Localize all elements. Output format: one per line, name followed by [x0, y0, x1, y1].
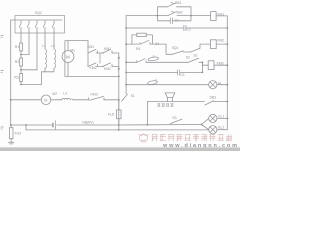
wire bus through FU2 gap — [118, 100, 120, 125]
wire M2 row — [11, 99, 119, 101]
wire EL2 to rail — [217, 129, 227, 131]
contact KM2 right — [103, 63, 113, 67]
svg-text:SQ1: SQ1 — [172, 46, 179, 50]
contact KM1 right — [103, 49, 113, 53]
switch S2a — [191, 48, 200, 52]
svg-text:SB2: SB2 — [176, 10, 183, 14]
switch S3 — [170, 119, 182, 124]
wire S2 up to KM2 row — [199, 44, 201, 48]
svg-text:KM1: KM1 — [104, 47, 111, 51]
svg-text:SB3: SB3 — [210, 95, 217, 99]
pushbutton SB2 — [168, 11, 176, 15]
contact KM2 left — [88, 63, 98, 67]
svg-text:L3: L3 — [63, 91, 67, 95]
wire R2 to R3 — [20, 66, 22, 73]
switch S4 — [140, 40, 150, 44]
wire R4 branch box — [132, 35, 153, 44]
resistor R1 — [20, 43, 23, 51]
wire control rail upper — [125, 16, 127, 94]
buzzer oval row3 — [148, 56, 159, 61]
switch S1 — [122, 94, 128, 101]
left edge marks — [1, 35, 4, 129]
capacitor C1 — [170, 18, 172, 24]
wire left supply rail — [10, 20, 12, 125]
capacitor C2 — [184, 25, 186, 30]
wire pole4 drop — [44, 33, 46, 48]
lamp HL — [209, 81, 217, 89]
svg-text:KM2: KM2 — [104, 67, 111, 71]
svg-text:S1: S1 — [131, 94, 135, 98]
svg-text:L2: L2 — [51, 44, 55, 48]
pushbutton SB1 — [168, 2, 176, 6]
resistor R2 — [20, 58, 23, 66]
coil KM3 — [208, 61, 214, 70]
coil KM2 — [210, 40, 216, 49]
lamp EL1 — [209, 114, 217, 122]
svg-text:C2: C2 — [187, 27, 191, 31]
wire B2 bottom row — [26, 129, 209, 131]
motor M1 circle — [62, 51, 74, 63]
svg-text:KM3: KM3 — [217, 61, 224, 65]
lamp EL2 — [209, 126, 217, 134]
wire SB1 branch — [158, 7, 192, 16]
svg-text:S3: S3 — [172, 116, 176, 120]
switch row3 left — [137, 59, 146, 63]
svg-text:R3: R3 — [14, 76, 18, 80]
wire main right bus — [118, 53, 120, 130]
resistor R3 — [20, 73, 23, 81]
wire control row2 — [126, 27, 227, 29]
watermark publisher logo — [139, 134, 149, 142]
bottom scan band — [0, 146, 240, 149]
wire tap2 — [21, 69, 37, 71]
wire pole5 drop — [53, 33, 55, 48]
svg-text:KM2: KM2 — [90, 66, 97, 70]
svg-text:HL: HL — [218, 82, 222, 86]
svg-text:S2: S2 — [186, 56, 190, 60]
svg-text:S4: S4 — [155, 42, 159, 46]
svg-text:GB(6V): GB(6V) — [82, 120, 93, 124]
wire control row1 — [126, 15, 227, 17]
svg-text:KM1: KM1 — [87, 45, 94, 49]
buzzer oval HL row — [147, 80, 157, 85]
wire R1 to R2 — [20, 51, 22, 58]
inductor L3 — [62, 98, 73, 99]
wire M1 loop — [65, 41, 119, 77]
wire R3 lower stub — [20, 81, 22, 84]
svg-text:L1: L1 — [42, 44, 46, 48]
svg-text:SB1: SB1 — [175, 1, 182, 5]
wire right rail — [226, 16, 228, 130]
wire S3 row — [119, 124, 202, 127]
fuse FU3 — [9, 128, 13, 139]
wire inner bus of SQ2 — [11, 19, 62, 21]
wire B2 drop — [25, 125, 27, 130]
wire C1 branch — [158, 16, 192, 21]
svg-text:S2: S2 — [193, 54, 197, 58]
wire KM2 row — [126, 43, 227, 45]
svg-text:C1: C1 — [175, 19, 179, 23]
speaker row wire — [147, 101, 227, 103]
wire SQ1 jog — [166, 44, 172, 54]
wire lamp node diagonals — [202, 118, 209, 129]
svg-text:EL1: EL1 — [218, 114, 224, 118]
svg-text:FU3: FU3 — [15, 132, 22, 136]
svg-text:KM2: KM2 — [217, 39, 224, 43]
switch SQ1 — [172, 51, 183, 54]
wire row3 jog to KM3 — [202, 62, 227, 65]
wire cluster right links to bus — [96, 53, 119, 67]
wire tap1 — [21, 54, 29, 56]
svg-text:FU2: FU2 — [108, 113, 115, 117]
switch S2b row3 — [189, 58, 198, 62]
wire SQ2 pole stubs inside box — [21, 27, 54, 33]
switch SQ2 pole contacts — [19, 21, 54, 28]
motor M2 circle — [41, 95, 51, 105]
wire EL1 to rail — [217, 117, 227, 119]
wire tap3 — [21, 72, 42, 85]
svg-text:C3: C3 — [180, 73, 184, 77]
capacitor C3 — [178, 70, 180, 75]
resistor R4 — [137, 33, 146, 36]
wire FU3 stub and ground — [9, 125, 14, 144]
coil KM1 — [211, 12, 217, 21]
wire row3 — [126, 61, 202, 63]
svg-text:R2: R2 — [15, 60, 19, 64]
contact KM3 — [89, 96, 105, 100]
wire cluster middle link — [96, 53, 104, 63]
pushbutton SB3 — [205, 101, 214, 106]
fuse FU2 — [117, 110, 122, 119]
wire pole2 drop — [28, 33, 30, 55]
speaker symbol — [165, 93, 175, 102]
watermark publisher text (vector CJK approximation) — [152, 134, 232, 141]
svg-text:EL2: EL2 — [218, 126, 224, 130]
wire C3 row — [126, 62, 202, 72]
wire pole1 drop to R chain — [20, 33, 22, 43]
svg-text:M: M — [66, 54, 70, 59]
battery GB cells — [52, 123, 54, 127]
battery GB row wire — [11, 124, 119, 126]
wire coil bottoms bus — [42, 68, 55, 72]
svg-text:R4: R4 — [136, 47, 140, 51]
wire pole3 drop — [36, 33, 38, 70]
wire SQ1 to S2 — [183, 51, 191, 53]
arrow marks on right bus — [118, 56, 120, 69]
svg-text:KM1: KM1 — [217, 12, 224, 16]
svg-text:M1: M1 — [70, 48, 75, 52]
wire KM cluster left bus — [87, 41, 89, 67]
wire HL row — [126, 84, 227, 86]
inductor L1 — [45, 48, 47, 68]
svg-text:M2: M2 — [52, 92, 57, 96]
contact KM1 left — [88, 49, 98, 53]
svg-text:M: M — [44, 98, 47, 102]
wire speaker drop — [146, 102, 148, 125]
svg-text:SQ2: SQ2 — [35, 11, 42, 15]
label speaker (vector CJK approximation) — [157, 103, 173, 106]
svg-text:R1: R1 — [15, 45, 19, 49]
switch SQ2 box — [15, 16, 65, 34]
inductor L2 — [54, 48, 56, 68]
svg-text:KM3: KM3 — [91, 93, 98, 97]
